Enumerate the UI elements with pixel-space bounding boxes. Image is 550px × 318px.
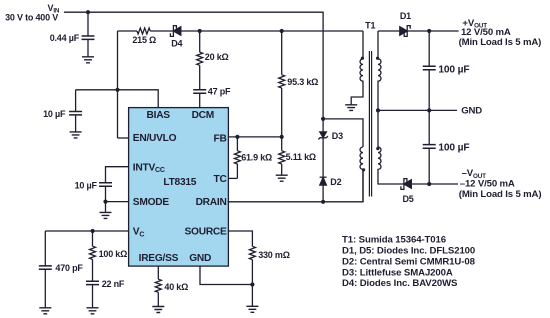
svg-text:30 V to 400 V: 30 V to 400 V xyxy=(5,13,58,23)
svg-text:DCM: DCM xyxy=(192,110,214,121)
wire bias sense line y=31 xyxy=(118,31,364,138)
resistor 40k xyxy=(155,266,161,307)
node FB 5.11k xyxy=(280,135,284,139)
svg-text:GND: GND xyxy=(461,106,482,117)
node 20k top xyxy=(198,29,202,33)
wire D5 to -Vout xyxy=(411,183,458,185)
transformer T1 secondary bottom winding xyxy=(378,110,404,184)
diode D2 xyxy=(320,176,327,178)
wire D1 to +Vout xyxy=(407,30,458,32)
ground under 10uF bias xyxy=(70,132,82,138)
node -Vout xyxy=(427,182,431,186)
node +Vout xyxy=(427,29,431,33)
svg-text:BIAS: BIAS xyxy=(147,110,171,121)
capacitor 100uF top leads xyxy=(428,31,430,110)
node VIN junction xyxy=(86,10,90,14)
ground under 5.11k xyxy=(276,175,288,181)
svg-text:IREG/SS: IREG/SS xyxy=(139,253,179,264)
node gnd cap junction xyxy=(427,108,431,112)
svg-text:20 kΩ: 20 kΩ xyxy=(205,52,229,62)
svg-text:D2: Central Semi CMMR1U-08: D2: Central Semi CMMR1U-08 xyxy=(342,256,476,267)
svg-text:10 µF: 10 µF xyxy=(75,181,98,191)
svg-text:5.11 kΩ: 5.11 kΩ xyxy=(286,152,316,162)
capacitor 100uF bottom leads xyxy=(428,110,430,184)
capacitor 10uF intvcc xyxy=(99,183,112,186)
svg-text:100 µF: 100 µF xyxy=(438,64,469,75)
phase dot secondary top xyxy=(376,57,379,60)
wire INTVcc xyxy=(106,167,130,183)
wire FB xyxy=(228,136,282,138)
ground under 22nF xyxy=(87,308,99,314)
svg-text:(Min Load Is 5 mA): (Min Load Is 5 mA) xyxy=(459,189,542,200)
svg-text:SMODE: SMODE xyxy=(133,197,170,208)
node drain clamp xyxy=(321,200,325,204)
node primary top xyxy=(321,117,325,121)
svg-text:61.9 kΩ: 61.9 kΩ xyxy=(241,152,272,162)
op-amp U1 LT8315 body xyxy=(129,108,229,267)
capacitor 470pF xyxy=(44,231,46,308)
svg-text:T1: Sumida 15364-T016: T1: Sumida 15364-T016 xyxy=(342,235,446,246)
svg-text:47 pF: 47 pF xyxy=(208,86,231,96)
svg-text:D4: D4 xyxy=(171,38,182,48)
phase dot secondary bottom xyxy=(376,147,379,150)
node Vc junction xyxy=(91,229,95,233)
svg-text:D3: D3 xyxy=(332,131,343,141)
resistor 95.3k xyxy=(279,31,285,137)
phase dot primary xyxy=(362,168,365,171)
node SMODE junction xyxy=(103,200,107,204)
svg-text:D2: D2 xyxy=(330,177,341,187)
wire center tap GND xyxy=(378,109,457,111)
diode D1 xyxy=(400,27,407,35)
svg-text:D3: Littlefuse SMAJ200A: D3: Littlefuse SMAJ200A xyxy=(342,267,453,278)
diode D5 xyxy=(401,179,407,190)
ground under source xyxy=(246,306,258,312)
wire secondary to D1 xyxy=(378,30,400,32)
svg-text:40 kΩ: 40 kΩ xyxy=(164,282,188,292)
node source gnd junction xyxy=(250,282,254,286)
capacitor 100uF top plates xyxy=(423,66,436,70)
resistor 61.9k xyxy=(234,137,240,179)
resistor R 215ohm xyxy=(137,28,150,34)
capacitor 22nF xyxy=(86,281,99,284)
svg-text:EN/UVLO: EN/UVLO xyxy=(133,133,177,144)
svg-text:LT8315: LT8315 xyxy=(163,177,196,188)
wire EN/UVLO xyxy=(118,137,130,139)
svg-text:22 nF: 22 nF xyxy=(102,279,125,289)
node 95.3k top xyxy=(280,29,284,33)
node FB 61.9k xyxy=(235,135,239,139)
node center tap xyxy=(376,108,380,112)
wire GND pin xyxy=(200,266,252,306)
resistor 5.11k xyxy=(279,137,285,175)
capacitor 0.44uF leads xyxy=(87,12,89,57)
capacitor 47pF xyxy=(193,90,206,93)
transformer T1 secondary top winding xyxy=(378,31,381,110)
svg-text:215 Ω: 215 Ω xyxy=(132,35,156,45)
svg-text:D5: D5 xyxy=(402,194,413,204)
svg-text:(Min Load Is 5 mA): (Min Load Is 5 mA) xyxy=(459,37,542,48)
wire DRAIN xyxy=(228,169,363,201)
resistor 20k xyxy=(197,31,203,90)
capacitor 10uF bias xyxy=(75,90,77,132)
svg-text:D1, D5: Diodes Inc. DFLS2100: D1, D5: Diodes Inc. DFLS2100 xyxy=(342,246,475,257)
ground under 0.44uF xyxy=(82,57,94,63)
ground bias winding xyxy=(345,105,357,111)
svg-text:DRAIN: DRAIN xyxy=(196,197,227,208)
wire Vc xyxy=(45,230,129,232)
ground under 10uF intvcc xyxy=(100,212,112,218)
svg-text:330 mΩ: 330 mΩ xyxy=(258,250,290,260)
wire primary top xyxy=(323,119,363,147)
svg-text:0.44 µF: 0.44 µF xyxy=(50,33,80,43)
svg-text:100 kΩ: 100 kΩ xyxy=(99,249,128,259)
svg-text:10 µF: 10 µF xyxy=(43,109,66,119)
wire SMODE xyxy=(106,201,130,203)
wire SOURCE xyxy=(228,231,253,246)
capacitor 100uF bottom plates xyxy=(423,145,436,149)
ground under 470pF xyxy=(39,308,51,314)
wire TC xyxy=(228,177,238,179)
node bias rail junction xyxy=(115,88,119,92)
svg-text:D4: Diodes Inc. BAV20WS: D4: Diodes Inc. BAV20WS xyxy=(342,278,458,289)
capacitor 0.44uF plates xyxy=(82,36,95,39)
svg-text:SOURCE: SOURCE xyxy=(185,227,228,238)
diode D4 xyxy=(170,26,176,37)
transformer core xyxy=(369,51,371,197)
svg-text:T1: T1 xyxy=(365,21,375,31)
transformer T1 bias winding xyxy=(351,31,363,105)
wire 47pF to DCM pin xyxy=(199,93,201,108)
diode D3 TVS xyxy=(322,119,324,132)
resistor 100k xyxy=(90,231,96,281)
resistor 330mohm xyxy=(249,246,255,284)
phase dot bias winding xyxy=(361,57,364,60)
svg-text:GND: GND xyxy=(189,253,211,264)
svg-text:100 µF: 100 µF xyxy=(438,143,469,154)
svg-text:95.3 kΩ: 95.3 kΩ xyxy=(287,77,318,87)
svg-text:TC: TC xyxy=(214,174,228,185)
svg-text:FB: FB xyxy=(214,133,227,144)
transformer T1 primary winding xyxy=(360,147,363,202)
wire BIAS node xyxy=(76,90,159,108)
wire VIN top rail xyxy=(64,12,323,119)
svg-text:D1: D1 xyxy=(400,11,411,21)
svg-text:470 pF: 470 pF xyxy=(55,263,83,273)
ground under 40k xyxy=(152,307,164,313)
